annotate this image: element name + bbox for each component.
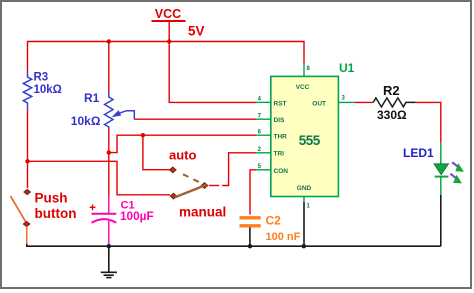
svg-text:100 nF: 100 nF [266, 231, 301, 243]
svg-text:10kΩ: 10kΩ [71, 114, 101, 128]
svg-text:OUT: OUT [312, 100, 326, 107]
VCC power symbol [152, 7, 205, 42]
wire auto branch [143, 135, 170, 170]
pin 5 stub CON [256, 169, 271, 171]
svg-text:100µF: 100µF [120, 209, 154, 223]
svg-text:button: button [35, 206, 77, 221]
svg-text:CON: CON [274, 168, 289, 175]
pin 2 stub TRI [256, 152, 271, 154]
pin 8 stub [303, 63, 305, 76]
svg-text:RST: RST [274, 100, 287, 107]
svg-text:auto: auto [169, 147, 197, 162]
capacitor C1 [90, 200, 154, 247]
resistor R2 [373, 83, 415, 122]
wire manual node [28, 161, 171, 195]
wire R2 to LED [415, 102, 440, 142]
junction R3/manual-node [25, 159, 29, 163]
junction THR/auto branch [141, 133, 145, 137]
svg-text:555: 555 [299, 133, 321, 148]
svg-text:5V: 5V [188, 23, 205, 38]
svg-text:R3: R3 [34, 72, 49, 84]
svg-text:Push: Push [35, 191, 68, 206]
wire pole to TRI pin [209, 185, 219, 187]
capacitor C2 [240, 170, 301, 246]
svg-text:GND: GND [297, 185, 312, 192]
junction rail/C1-ground [107, 244, 111, 248]
svg-text:C2: C2 [266, 214, 282, 228]
wire GND pin to rail [303, 202, 305, 246]
wire push button to ground rail [26, 226, 28, 244]
pin 7 stub DIS [256, 118, 271, 120]
ground rail wire [27, 244, 441, 246]
svg-text:manual: manual [179, 205, 226, 220]
svg-text:330Ω: 330Ω [377, 108, 407, 122]
junction rail/VCC stem [167, 39, 171, 43]
wire VCC rail [28, 42, 305, 72]
svg-text:R1: R1 [84, 91, 100, 105]
potentiometer R1 [71, 91, 126, 129]
ground symbol [101, 246, 117, 277]
wire R3 to push button [27, 109, 29, 188]
svg-text:VCC: VCC [296, 84, 310, 91]
wire R1 top [108, 42, 110, 93]
svg-text:TRI: TRI [274, 151, 285, 158]
wire VCC to RST pin [169, 42, 256, 103]
svg-text:DIS: DIS [274, 117, 286, 124]
svg-text:THR: THR [274, 134, 288, 141]
wire THR pin [109, 135, 256, 152]
pin 4 stub RST [256, 101, 271, 103]
svg-text:VCC: VCC [155, 7, 181, 21]
pin 1 stub GND [303, 197, 305, 203]
svg-text:R2: R2 [383, 83, 400, 98]
IC U1 555 [271, 61, 355, 197]
pin 6 stub THR [256, 134, 271, 136]
LED LED1 [403, 143, 464, 195]
junction THR/R1 bottom [107, 150, 111, 154]
wire LED to ground rail [440, 195, 442, 246]
pin 3 stub OUT [338, 101, 355, 103]
svg-text:10kΩ: 10kΩ [34, 84, 62, 96]
resistor R3 [23, 72, 62, 110]
switch auto/manual [169, 147, 226, 219]
svg-text:U1: U1 [339, 61, 355, 75]
junction rail/R1 [107, 39, 111, 43]
junction rail/GND pin [302, 244, 306, 248]
wire R1 bottom to C1 [108, 129, 110, 197]
wire wiper to DIS pin [126, 111, 134, 119]
junction rail/C2 [248, 244, 252, 248]
svg-text:LED1: LED1 [403, 146, 434, 160]
wire OUT to R2 [355, 101, 373, 103]
push button switch [11, 190, 77, 227]
